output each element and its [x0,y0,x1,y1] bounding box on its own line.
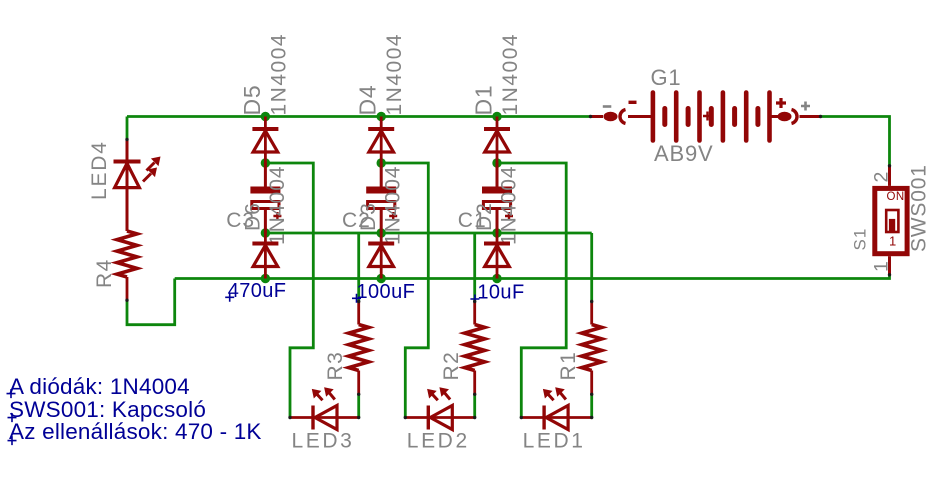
svg-text:LED4: LED4 [88,140,111,200]
wire R3 top pin [357,302,360,325]
wire mid rail feed to R3 [357,233,360,302]
wire LED3 cathode pin [290,416,313,419]
wire D6 top pin [264,233,267,242]
wire R3 bottom to LED3 anode [357,394,360,417]
wire D5 bottom pin [264,131,267,163]
wire bottom rail from switch pin 1 [175,275,890,279]
wire D5 top pin [264,117,267,128]
wire R1 top pin [590,302,593,325]
svg-text:D2: D2 [473,202,496,231]
wire top rail [127,115,591,118]
svg-text:D5: D5 [239,84,265,115]
svg-text:1N4004: 1N4004 [498,165,521,245]
svg-text:100uF: 100uF [357,281,416,303]
LED3 arrows [312,387,335,400]
wire D3 top pin [380,233,383,242]
wire mid rail cap negative net [265,232,591,235]
svg-text:G1: G1 [651,65,682,90]
LED LED2 [428,406,452,430]
svg-text:Az ellenállások: 470 - 1K: Az ellenállások: 470 - 1K [9,419,262,444]
junction D5-cap branch 1 [261,158,270,167]
junction top rail branch 3 [492,112,501,121]
svg-text:R1: R1 [557,351,580,381]
wire LED1 cathode pin [521,416,543,419]
origin cross note line 2 [8,413,17,422]
junction cap-D2 branch 3 [492,228,501,237]
svg-text:LED2: LED2 [407,430,470,453]
svg-text:SWS001: SWS001 [908,164,931,252]
svg-text:R4: R4 [93,258,116,288]
wire R1 bottom pin [590,371,593,395]
wire R1 bottom to LED1 anode [590,394,593,417]
wire R3 bottom pin [357,371,360,395]
capacitor C3 470uF [250,163,281,233]
LED1 arrows [543,387,566,400]
svg-text:LED1: LED1 [523,430,586,453]
svg-text:470uF: 470uF [228,280,287,302]
wire R4 to bottom rail staircase [127,279,175,325]
svg-text:1N4004: 1N4004 [499,33,522,116]
svg-text:1N4004: 1N4004 [383,33,406,116]
capacitor C2 100uF [366,163,397,233]
svg-text:1: 1 [889,234,896,249]
diode D4 1N4004 [368,129,394,152]
battery polarity marks [603,98,810,111]
wire battery plus to switch pin 2 [821,117,890,166]
svg-text:D4: D4 [355,84,381,115]
svg-text:2: 2 [871,171,893,182]
LED4 arrows [143,157,161,182]
wire LED4 anode drop [126,117,129,140]
junction bottom rail branch 1 [261,274,270,283]
svg-text:ON: ON [887,191,905,203]
wire D4 bottom pin [380,131,383,163]
origin cross 10uF [470,295,479,304]
wire D6 bottom pin [264,245,267,278]
wire D2 bottom pin [496,245,499,278]
svg-text:1N4004: 1N4004 [267,33,290,116]
wire node D5 cathode to LED3 loop [265,163,313,418]
switch S1 actuator [886,210,898,232]
wire node D1 cathode to LED1 loop [497,163,566,418]
battery G1 AB9V [591,93,821,141]
svg-text:1N4004: 1N4004 [382,165,405,245]
svg-text:SWS001: Kapcsoló: SWS001: Kapcsoló [9,397,206,422]
svg-text:1N4004: 1N4004 [266,165,289,245]
svg-text:D3: D3 [357,202,380,231]
junction bottom rail branch 2 [377,274,386,283]
svg-text:LED3: LED3 [292,430,355,453]
resistor R3 [349,325,369,371]
diode D2 1N4004 [484,244,510,267]
junction top rail branch 1 [261,112,270,121]
junction bottom rail branch 3 [492,274,501,283]
junction D4-cap branch 2 [377,158,386,167]
diode D6 1N4004 [252,244,278,267]
resistor R4 [117,231,137,277]
wire R4 bottom pin [126,277,129,300]
wire D1 top pin [496,117,499,128]
LED2 arrows [427,387,450,400]
junction top rail branch 2 [377,112,386,121]
wire mid rail feed to R1 [590,233,593,302]
wire LED1 anode pin [546,416,592,419]
LED4 [114,140,141,232]
diode D1 1N4004 [484,129,510,152]
wire mid rail feed to R2 [473,233,476,302]
switch S1 SWS001 [875,166,907,275]
origin cross note line 1 [7,389,16,398]
wire LED3 anode pin [315,416,359,419]
diode D3 1N4004 [368,244,394,267]
diode D5 1N4004 [252,129,278,152]
wire D2 top pin [496,233,499,242]
wire LED2 anode pin [430,416,474,419]
wire D3 bottom pin [380,245,383,278]
junction D1-cap branch 3 [492,158,501,167]
LED LED3 [313,406,337,430]
wire D1 bottom pin [496,131,499,163]
junction cap-D3 branch 2 [377,228,386,237]
svg-text:A diódák: 1N4004: A diódák: 1N4004 [9,374,190,399]
svg-text:10uF: 10uF [477,282,524,304]
svg-text:R2: R2 [440,351,463,381]
resistor R1 [582,325,602,371]
svg-text:S1: S1 [851,228,870,251]
resistor R2 [465,325,485,371]
wire R2 bottom pin [473,371,476,395]
svg-text:D6: D6 [241,202,264,231]
origin cross 100uF [352,294,361,303]
wire node D4 cathode to LED2 loop [381,163,428,418]
svg-text:1: 1 [871,261,893,272]
capacitor C1 10uF [482,163,513,233]
pin connection points [125,115,891,419]
wire R2 top pin [473,302,476,325]
wire D4 top pin [380,117,383,128]
svg-text:D1: D1 [471,84,497,115]
LED LED1 [544,406,568,430]
wire LED2 cathode pin [405,416,428,419]
wire R2 bottom to LED2 anode [473,394,476,417]
junction cap-D6 branch 1 [261,228,270,237]
origin cross note line 3 [8,436,17,445]
origin cross 470uF [225,293,234,302]
svg-text:R3: R3 [324,351,347,381]
svg-text:AB9V: AB9V [654,141,713,166]
